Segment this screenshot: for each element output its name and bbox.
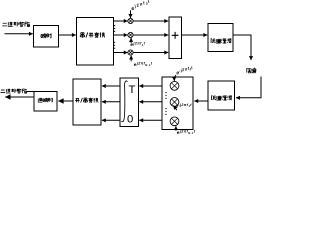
wire: demod branch 3 into integrator [139, 119, 162, 121]
wire: branch 1 into multiplier [114, 20, 128, 22]
node: binary data output label [1, 89, 27, 94]
wire: branch 3 into multiplier [114, 52, 128, 54]
multiplier D3 [170, 117, 179, 126]
wire: LPF2 to demodulator bank [194, 100, 208, 102]
wire: branch 3 into summer [133, 52, 168, 54]
multiplier D1 [170, 81, 179, 90]
block: summer + [169, 17, 182, 59]
wire: branch 2 into multiplier [114, 34, 128, 36]
multiplier M2 [128, 32, 133, 37]
node: channel label 信道 [247, 68, 256, 73]
multiplier M3 [128, 50, 133, 55]
wire: carrier arrow into D1 [174, 75, 176, 81]
wire: P/S to demapper [58, 100, 73, 102]
block: parallel/serial converter 并/串变换 [73, 79, 101, 125]
block: integrator 0..T [120, 78, 139, 127]
wire: LPF1 to channel (right then down arrow) [233, 35, 251, 60]
wire: carrier arrow into D3 [175, 126, 177, 130]
wire: carrier arrow into M1 [130, 10, 132, 18]
wire: output arrow binary data [5, 96, 34, 98]
node: vertical dots between branches (top) [114, 25, 115, 26]
block: demapper 逆映射 [34, 92, 57, 112]
wire: stub above demapper [27, 91, 35, 93]
wire: integrator output 2 into P/S converter [102, 101, 120, 103]
multiplier M1 [128, 18, 133, 23]
wire: integrator output 1 into P/S converter [102, 85, 120, 87]
wire: branch 2 into summer [133, 34, 168, 36]
node: vertical dots between demods [165, 92, 166, 93]
wire: demod branch 1 into integrator [139, 85, 162, 87]
svg-text:0: 0 [127, 113, 133, 125]
wire: carrier arrow into M3 [130, 56, 132, 62]
multiplier D2 [170, 98, 179, 107]
svg-text:T: T [129, 84, 136, 96]
block: low-pass filter LPF2 低通滤波 [208, 81, 235, 110]
wire: demod branch 2 into integrator [139, 101, 162, 103]
wire: input arrow into mapper [5, 33, 33, 35]
block: mapper 映射 [34, 26, 59, 48]
wire: mapper to S/P converter [59, 34, 76, 36]
block: serial/parallel converter 串/并变换 [77, 18, 114, 66]
wire: carrier arrow into D2 [174, 105, 177, 110]
wire: summer to LPF1 [182, 34, 208, 36]
wire: channel into LPF2 (down then left arrow) [236, 77, 261, 98]
node: integral sign [121, 81, 127, 122]
wire: integrator output 3 into P/S converter [102, 119, 120, 121]
block: low-pass filter LPF1 低通滤波 [208, 24, 233, 52]
block: demodulator multiplier bank box [162, 77, 193, 130]
wire: branch 1 into summer [133, 20, 168, 22]
wire: carrier arrow into M2 [130, 38, 132, 43]
node: binary data input label [2, 22, 30, 27]
